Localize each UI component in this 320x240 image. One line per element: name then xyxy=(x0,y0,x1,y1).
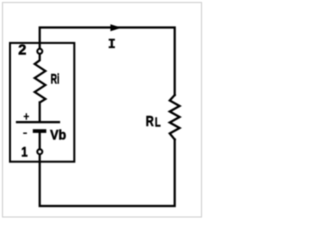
svg-text:Ri: Ri xyxy=(51,71,60,86)
svg-text:2: 2 xyxy=(18,43,26,59)
svg-text:Vb: Vb xyxy=(50,127,66,143)
svg-text:R: R xyxy=(146,114,154,130)
svg-text:1: 1 xyxy=(21,144,28,160)
svg-text:L: L xyxy=(155,115,161,130)
